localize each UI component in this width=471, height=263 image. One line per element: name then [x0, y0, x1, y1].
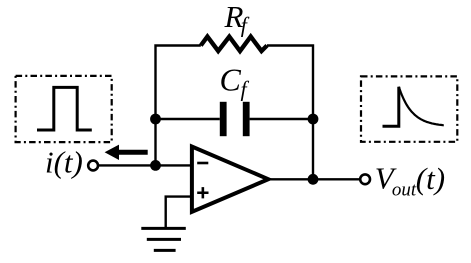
svg-text:f: f	[241, 77, 250, 102]
output waveform box (exponential decay)	[361, 76, 457, 141]
wire: left vertical from capacitor node to input node	[154, 119, 156, 165]
wire: capacitor branch right	[250, 118, 313, 120]
label Vout(t)	[375, 161, 445, 201]
wire: top feedback right segment	[267, 46, 313, 120]
wire: non-inverting input to ground	[166, 197, 192, 229]
junction: output node	[308, 174, 319, 185]
resistor Rf	[201, 37, 267, 51]
wire: top feedback left segment	[156, 46, 201, 120]
label Rf	[224, 0, 250, 38]
op-amp U1	[192, 147, 268, 212]
current direction arrow	[105, 145, 148, 160]
input waveform box (current pulse)	[16, 76, 112, 142]
junction: inverting input node	[150, 160, 161, 171]
junction: right capacitor node	[308, 114, 319, 125]
node Vout output terminal	[360, 174, 370, 184]
capacitor Cf	[220, 102, 250, 136]
svg-text:C: C	[220, 62, 242, 98]
label Cf	[220, 62, 250, 102]
junction: left capacitor node	[150, 114, 161, 125]
svg-text:f: f	[241, 13, 250, 38]
svg-text:(t): (t)	[416, 161, 445, 196]
wire: capacitor branch left	[156, 118, 220, 120]
node i(t) input terminal	[88, 161, 98, 171]
ground	[141, 228, 186, 250]
svg-text:out: out	[392, 180, 417, 201]
label i(t)	[45, 145, 83, 180]
wire: input wire to inverting input	[98, 164, 192, 166]
wire: right vertical from capacitor node to output node	[312, 119, 314, 179]
svg-text:i(t): i(t)	[45, 145, 83, 180]
wire: output wire	[269, 178, 361, 180]
